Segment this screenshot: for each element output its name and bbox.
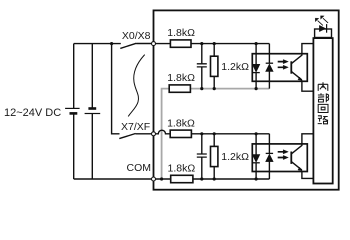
terminal COM	[152, 177, 156, 181]
internal circuit box	[313, 38, 332, 183]
svg-text:COM: COM	[127, 162, 152, 174]
LED D2A	[268, 44, 270, 89]
svg-text:1.8kΩ: 1.8kΩ	[167, 118, 195, 130]
kanji bu	[318, 93, 329, 102]
wire rail1	[73, 44, 75, 179]
svg-text:1.8kΩ: 1.8kΩ	[168, 162, 196, 174]
wire row1 X0/X8	[156, 43, 270, 45]
svg-text:1.8kΩ: 1.8kΩ	[167, 72, 195, 84]
break mark (omitted inputs)	[128, 55, 145, 117]
optocoupler U_B box	[252, 144, 307, 172]
PLC outer box	[154, 10, 339, 189]
wire gray return A	[162, 89, 270, 179]
wire bottom COM	[74, 178, 152, 180]
optocoupler U_A box	[252, 54, 307, 82]
node rail3-top	[110, 42, 113, 45]
resistor R3A 1.2k	[213, 44, 215, 89]
LED D1B	[255, 134, 257, 179]
LED D1A	[255, 44, 257, 89]
switch X7/XF blade	[119, 134, 151, 139]
LED indicator diode	[319, 25, 325, 31]
resistor R2A 1.8k	[169, 85, 190, 92]
light arrows A	[278, 62, 284, 68]
svg-text:1.2kΩ: 1.2kΩ	[221, 61, 249, 73]
resistor R1B 1.8k	[170, 130, 191, 137]
node gray bus junctions	[200, 87, 203, 90]
phototransistor Q_A	[290, 61, 292, 73]
phototransistor Q_B	[290, 152, 292, 164]
label internal-circuit kanji (hand drawn)	[318, 82, 329, 124]
resistor R3B 1.2k	[213, 134, 215, 179]
node row3 junctions	[200, 132, 203, 135]
switch X0/X8 blade	[120, 43, 151, 48]
wire top supply	[74, 43, 121, 45]
kanji ro	[318, 116, 328, 124]
capacitor C_A	[201, 44, 203, 89]
node row1 junctions	[200, 42, 203, 45]
wire rail2	[91, 44, 93, 179]
node row4 junctions	[160, 177, 163, 180]
battery B2	[88, 107, 96, 110]
light arrows B	[278, 152, 284, 158]
svg-text:X0/X8: X0/X8	[122, 30, 151, 42]
svg-text:12~24V DC: 12~24V DC	[4, 107, 61, 119]
svg-text:X7/XF: X7/XF	[121, 121, 150, 133]
wire row3 X7/XF with hop over gray	[156, 130, 270, 134]
battery B1	[65, 107, 80, 109]
kanji kai	[318, 104, 328, 112]
LED D2B	[268, 134, 270, 179]
terminal X7/XF	[152, 132, 156, 136]
wire row4 COM bus	[156, 178, 270, 180]
terminal X0/X8	[152, 42, 156, 46]
wire rail3	[112, 44, 120, 134]
svg-text:1.2kΩ: 1.2kΩ	[221, 151, 249, 163]
LED indicator box	[315, 29, 332, 38]
LED indicator light arrows	[318, 18, 329, 25]
svg-text:1.8kΩ: 1.8kΩ	[167, 27, 195, 39]
capacitor C_B	[201, 134, 203, 179]
kanji nei	[318, 82, 328, 91]
resistor R2B 1.8k	[171, 175, 193, 182]
resistor R1A 1.8k	[170, 40, 191, 47]
